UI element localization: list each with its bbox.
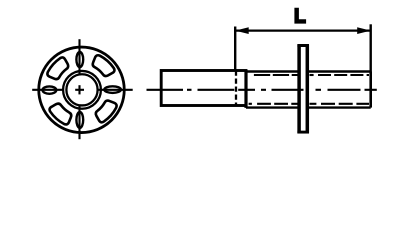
threaded rod top edge (right of flange) [307,70,371,72]
thread root hidden line bottom (right of flange) [310,103,317,105]
rod end face [369,72,372,108]
slot hole right (oval) [104,86,121,93]
threaded rod top edge (left of flange) [246,70,299,72]
arrowhead left [235,27,249,34]
hub circle (outer) [63,71,101,109]
flange outer circle [39,47,125,133]
threaded rod bottom edge (right of flange) [307,106,371,108]
lightening hole bottom-right (rounded sector) [96,101,117,123]
thread root hidden line top (left of flange) [254,74,299,76]
dimension text L [294,8,306,24]
flange (side view, thin disc) left edge [297,45,301,134]
lightening hole top-left (rounded sector) [47,57,68,79]
threaded rod bottom edge (left of flange) [246,106,299,108]
flange right edge [306,45,310,134]
thread root tick top (right of flange) [310,74,314,76]
cylinder body (side view, unthreaded section) [161,71,246,106]
horizontal centerline segments (flange view + shaft axis) [32,89,377,91]
extension line right [370,24,372,71]
hidden edge inside cylinder under extension line [235,71,237,106]
lightening hole bottom-left (rounded sector) [50,104,72,125]
slot hole top (oval) [76,52,83,67]
extension line left (solid above part) [234,27,236,71]
dimension line L [235,30,371,32]
thread root hidden line bottom (left of flange) [249,103,252,105]
thread root hidden line top (right of flange) [318,74,369,76]
arrowhead right [357,27,371,34]
slot hole left (oval) [43,86,57,93]
flange top cap [297,44,309,47]
bore circle (inner) [66,74,97,105]
vertical centerline segments (flange front view) [78,39,80,139]
shoulder line at thread start [244,70,247,108]
lightening hole top-right (rounded sector) [93,55,115,76]
slot hole bottom (oval) [76,112,83,128]
flange bottom cap [297,131,309,134]
